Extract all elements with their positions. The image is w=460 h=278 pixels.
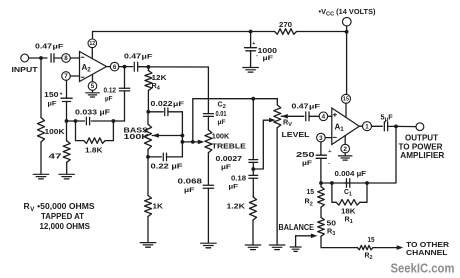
node 1000uF bbox=[249, 30, 253, 34]
svg-text:1K: 1K bbox=[153, 202, 164, 211]
svg-text:0.47: 0.47 bbox=[292, 102, 309, 111]
svg-text:+: + bbox=[328, 149, 331, 155]
svg-text:0.18: 0.18 bbox=[231, 174, 246, 183]
node C1 right bbox=[365, 181, 369, 185]
svg-text:1000: 1000 bbox=[258, 46, 278, 55]
wire A2 output to treble line bbox=[148, 66, 208, 68]
resistor 1.2K bbox=[227, 197, 257, 220]
op-amp A1 bbox=[332, 108, 360, 145]
svg-text:250: 250 bbox=[296, 150, 315, 159]
note RV value bbox=[24, 201, 95, 231]
node input junction bbox=[39, 56, 43, 60]
wire R4 to bass top bbox=[147, 91, 149, 112]
svg-text:TAPPED AT: TAPPED AT bbox=[41, 211, 85, 221]
pin 6 of A2 bbox=[107, 62, 119, 71]
pin 7 of A2 bbox=[62, 72, 71, 81]
svg-text:0.068: 0.068 bbox=[178, 177, 203, 186]
loudness tap arrow bbox=[269, 118, 276, 123]
potentiometer R3 50 BALANCE bbox=[279, 217, 337, 237]
wire 250uF to node bbox=[320, 158, 322, 183]
svg-text:TREBLE: TREBLE bbox=[212, 143, 246, 151]
svg-text:8: 8 bbox=[64, 55, 68, 62]
pin 15 of A1 bbox=[342, 94, 351, 103]
wire pin6 to output node bbox=[119, 66, 126, 68]
svg-text:SeekIC.com: SeekIC.com bbox=[391, 261, 455, 276]
resistor 1K bbox=[145, 157, 164, 217]
svg-text:0.0027: 0.0027 bbox=[216, 154, 243, 163]
wire pin7 down bbox=[66, 80, 68, 98]
svg-text:100K: 100K bbox=[212, 133, 230, 141]
op-amp A2 bbox=[80, 52, 107, 82]
wire bass bottom bbox=[147, 149, 149, 157]
to other channel arrow bbox=[397, 240, 450, 257]
svg-text:INPUT: INPUT bbox=[12, 65, 38, 74]
node bass top bbox=[146, 110, 150, 114]
capacitor 0.47uF A1 input bbox=[292, 102, 321, 121]
wire 1.2K to ground bbox=[252, 220, 254, 244]
wire input node down bbox=[40, 58, 42, 118]
node bass wiper bbox=[181, 134, 185, 138]
svg-text:µF: µF bbox=[309, 104, 320, 111]
svg-text:0.47: 0.47 bbox=[35, 42, 52, 51]
output terminal bbox=[399, 123, 445, 160]
svg-text:+: + bbox=[60, 91, 63, 97]
ground under 100K bbox=[33, 174, 49, 179]
wire Vcc down to pin 15 bbox=[346, 32, 348, 95]
node R2 top bbox=[319, 181, 323, 185]
svg-text:7: 7 bbox=[64, 73, 68, 80]
wire RV wiper to 0.47uF bbox=[281, 115, 304, 117]
capacitor 0.068uF bbox=[178, 177, 214, 195]
node feedback left bbox=[65, 119, 69, 123]
wire 0.18 to 1.2K bbox=[252, 178, 254, 197]
resistor 1.8K feedback bbox=[76, 121, 114, 154]
resistor 47 bbox=[49, 141, 71, 163]
svg-text:3: 3 bbox=[319, 135, 323, 142]
node R4 top bbox=[147, 65, 151, 69]
capacitor C2 0.01uF bbox=[203, 100, 226, 127]
wire output feedback bbox=[367, 126, 396, 183]
capacitor 0.22uF bass bbox=[148, 153, 183, 170]
wire rail left bbox=[193, 99, 277, 142]
capacitor 0.18uF bbox=[229, 174, 258, 191]
svg-text:µF: µF bbox=[142, 54, 153, 61]
capacitor 0.47uF input coupling bbox=[35, 42, 64, 63]
node tap network bbox=[251, 162, 255, 175]
svg-text:CHANNEL: CHANNEL bbox=[406, 248, 448, 257]
svg-text:0.033 µF: 0.033 µF bbox=[75, 107, 111, 116]
svg-text:0.004 µF: 0.004 µF bbox=[335, 169, 367, 178]
svg-text:15: 15 bbox=[343, 97, 349, 103]
resistor R2 15 lower bbox=[357, 237, 374, 261]
svg-text:100K: 100K bbox=[124, 133, 151, 141]
svg-text:µF: µF bbox=[302, 160, 312, 167]
wire pin12 up to supply rail bbox=[92, 32, 94, 39]
pin 1 of A1 bbox=[359, 122, 371, 131]
wire 150uF to feedback node bbox=[66, 102, 68, 122]
wire feedback horizontal bbox=[67, 120, 125, 122]
svg-text:1.8K: 1.8K bbox=[85, 145, 103, 154]
capacitor 0.47uF A2 output bbox=[124, 52, 153, 72]
capacitor C1 0.004uF bbox=[335, 169, 367, 197]
ground under RV bbox=[269, 245, 285, 250]
wire treble to 0.068 bbox=[207, 153, 209, 185]
wire down to C2 bbox=[207, 67, 209, 114]
wire pin1 to 5uF bbox=[372, 125, 383, 127]
capacitor 0.022uF bass bbox=[148, 99, 184, 116]
svg-text:µF: µF bbox=[263, 55, 274, 62]
resistor 100K input bias bbox=[38, 118, 66, 143]
pin 2 of A1 bbox=[341, 144, 350, 153]
ground under 0.068 bbox=[201, 243, 217, 248]
node output bbox=[394, 125, 398, 129]
resistor 270 bbox=[275, 20, 297, 35]
svg-text:270: 270 bbox=[279, 20, 292, 29]
wire pin15 to A1 bbox=[345, 103, 347, 117]
svg-text:15: 15 bbox=[307, 187, 315, 196]
svg-text:µF: µF bbox=[229, 184, 239, 191]
pin 12 of A2 bbox=[88, 39, 97, 48]
resistor R1 18K bbox=[332, 183, 367, 225]
potentiometer BASS 100K bbox=[124, 112, 152, 150]
wire RV bottom to ground bbox=[276, 128, 278, 245]
wire R2 to R3 bbox=[320, 207, 322, 217]
wire pin3 to A1 bbox=[325, 137, 332, 139]
wire balance wiper to ground bbox=[295, 236, 297, 247]
svg-text:0.01: 0.01 bbox=[216, 111, 227, 118]
wire pin12 to A2 edge bbox=[91, 48, 93, 59]
node C1 left bbox=[330, 181, 334, 185]
svg-text:OUTPUT: OUTPUT bbox=[405, 134, 438, 143]
node Vcc junction bbox=[345, 30, 349, 34]
treble wiper arrow bbox=[198, 140, 205, 145]
ground under 1000uF bbox=[243, 68, 259, 73]
svg-text:1: 1 bbox=[365, 123, 369, 130]
wire A1 to pin2 bbox=[344, 136, 346, 145]
svg-text:1.2K: 1.2K bbox=[227, 202, 246, 211]
wire to output terminal bbox=[396, 125, 416, 127]
svg-text:µF: µF bbox=[221, 164, 231, 171]
balance wiper bbox=[296, 234, 318, 239]
capacitor 0.033uF feedback bbox=[75, 107, 111, 125]
wire A2 edge to pin5 bbox=[92, 75, 94, 82]
bass wiper bbox=[152, 133, 182, 138]
node tap mid bbox=[181, 140, 185, 144]
svg-text:47: 47 bbox=[49, 152, 62, 161]
svg-text:AMPLIFIER: AMPLIFIER bbox=[400, 151, 444, 160]
capacitor 0.12uF feedback bbox=[104, 67, 130, 121]
svg-text:µF: µF bbox=[173, 101, 184, 108]
wire C2 to treble bbox=[207, 116, 209, 129]
node rail drop bbox=[191, 140, 195, 144]
wire 1K to ground bbox=[147, 217, 149, 242]
svg-text:0.022: 0.022 bbox=[151, 99, 173, 108]
svg-text:LEVEL: LEVEL bbox=[282, 130, 311, 139]
node rail to 0.0027 bbox=[251, 97, 255, 101]
wire treble wiper bbox=[182, 141, 199, 143]
capacitor 150uF bbox=[44, 90, 72, 107]
svg-text:0.22 µF: 0.22 µF bbox=[151, 162, 184, 171]
node 1.8K right bbox=[112, 119, 116, 123]
capacitor 0.0027uF bbox=[216, 154, 258, 171]
wire rail down to 0.0027 bbox=[252, 99, 254, 160]
svg-text:µF: µF bbox=[105, 96, 113, 103]
wire pin7 to A2 bbox=[70, 75, 79, 77]
wire pin8 to A2 bbox=[70, 57, 79, 59]
svg-text:6: 6 bbox=[113, 64, 117, 71]
svg-text:100K: 100K bbox=[45, 127, 66, 136]
resistor R2 15 bbox=[305, 183, 325, 207]
ground under 1.2K bbox=[245, 245, 261, 250]
capacitor 1000uF bypass bbox=[245, 32, 277, 63]
pin 3 of A1 bbox=[317, 133, 326, 142]
svg-text:12: 12 bbox=[89, 41, 95, 47]
svg-text:-: - bbox=[328, 160, 330, 166]
pin 8 of A2 bbox=[62, 54, 71, 63]
node 1.8K left bbox=[74, 119, 78, 123]
RV wiper arrow bbox=[281, 114, 288, 119]
Vcc terminal bbox=[319, 7, 377, 32]
ground under balance wiper bbox=[290, 247, 301, 251]
potentiometer TREBLE 100K bbox=[205, 130, 246, 153]
input terminal J1 bbox=[12, 54, 38, 74]
wire to other channel bbox=[373, 247, 397, 249]
svg-text:BALANCE: BALANCE bbox=[279, 223, 315, 232]
svg-text:0.47: 0.47 bbox=[124, 52, 141, 61]
wire supply rail bbox=[93, 31, 347, 33]
capacitor 5uF output bbox=[381, 113, 397, 131]
svg-text:µF: µF bbox=[184, 187, 195, 194]
ground under 47 bbox=[59, 174, 74, 179]
wire 100K to ground bbox=[40, 142, 42, 174]
svg-text:15: 15 bbox=[368, 237, 375, 244]
node A2 output bbox=[123, 65, 127, 69]
wire 1000uF to ground bbox=[250, 51, 252, 67]
wire loudness tap bbox=[253, 120, 270, 169]
capacitor 250uF bbox=[296, 149, 331, 167]
wire pin3 down bbox=[320, 142, 322, 155]
wire R3 bottom to other channel bbox=[321, 236, 357, 247]
svg-text:5: 5 bbox=[91, 83, 95, 90]
watermark bbox=[391, 261, 455, 276]
wire tap vertical bbox=[181, 112, 183, 157]
wire pin4 to A1 bbox=[328, 115, 332, 117]
wire 0.068 to ground bbox=[207, 188, 209, 242]
svg-text:2: 2 bbox=[343, 146, 347, 153]
wire 47 to ground bbox=[66, 162, 68, 173]
ground under pin 2 bbox=[338, 153, 352, 160]
svg-text:0.12: 0.12 bbox=[104, 86, 117, 95]
svg-text:12,000 OHMS: 12,000 OHMS bbox=[40, 221, 91, 231]
svg-text:µF: µF bbox=[53, 44, 64, 51]
pin 4 of A1 bbox=[319, 112, 328, 121]
svg-text:+: + bbox=[252, 41, 255, 47]
potentiometer RV LEVEL bbox=[274, 99, 310, 139]
ground under 1K bbox=[140, 243, 156, 248]
pin 5 of A2 bbox=[88, 82, 97, 91]
ground under pin 5 bbox=[86, 90, 100, 97]
svg-text:4: 4 bbox=[322, 114, 326, 121]
svg-text:150: 150 bbox=[44, 90, 59, 99]
resistor R4 12K bbox=[145, 67, 168, 92]
node bass bottom bbox=[146, 155, 150, 159]
wire input to C1 junction bbox=[29, 57, 47, 59]
wire node down to 47 bbox=[66, 121, 68, 141]
svg-text:µF: µF bbox=[218, 119, 226, 126]
wire feedback to R2 node bbox=[321, 182, 367, 184]
svg-text:µF: µF bbox=[48, 100, 57, 107]
